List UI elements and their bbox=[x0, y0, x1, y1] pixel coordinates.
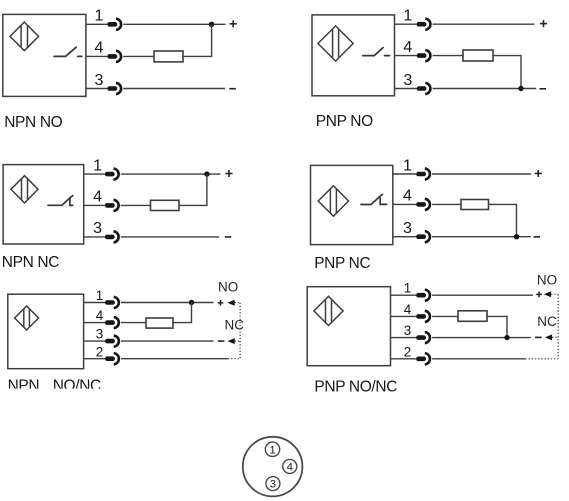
proximity sensor symbol (diamond) U6 bbox=[314, 296, 343, 325]
connector pin 3 bbox=[266, 477, 280, 491]
svg-text:PNP NC: PNP NC bbox=[314, 255, 370, 272]
wire pin3 to - bbox=[121, 340, 214, 342]
load resistor R3 bbox=[151, 200, 180, 210]
connector plug pin 1 bbox=[105, 297, 119, 308]
wire pin4 to load bbox=[432, 203, 461, 205]
sensor box U2 bbox=[312, 15, 395, 96]
junction node on pin1 bbox=[209, 22, 214, 27]
connector plug pin 2 bbox=[416, 353, 430, 364]
sensor box U5 bbox=[8, 294, 84, 369]
svg-text:NPN NC: NPN NC bbox=[2, 254, 59, 271]
- supply symbol bbox=[535, 336, 542, 338]
- supply symbol bbox=[218, 340, 225, 342]
NC switch contact S4 bbox=[361, 194, 387, 204]
wire pin3 stub bbox=[84, 236, 105, 238]
dotted select bus bbox=[557, 294, 559, 359]
connector plug pin 3 bbox=[105, 336, 119, 347]
+ supply symbol bbox=[535, 170, 542, 177]
connector plug pin 4 bbox=[417, 50, 431, 61]
svg-text:4: 4 bbox=[403, 39, 412, 56]
proximity sensor symbol (diamond) U5 bbox=[15, 306, 39, 330]
connector plug pin 3 bbox=[107, 83, 121, 94]
+ supply symbol bbox=[230, 20, 237, 27]
- supply symbol bbox=[540, 88, 547, 90]
proximity sensor symbol (diamond) U4 bbox=[318, 186, 348, 216]
wire pin4 to load bbox=[121, 204, 151, 206]
- supply symbol bbox=[534, 236, 541, 238]
svg-text:2: 2 bbox=[96, 344, 104, 359]
wire load to junction bbox=[179, 174, 207, 205]
wire pin1 to + bbox=[433, 23, 535, 25]
connector plug pin 4 bbox=[416, 199, 430, 210]
svg-text:4: 4 bbox=[287, 461, 293, 473]
+ supply symbol bbox=[540, 20, 547, 27]
wire pin1 stub bbox=[393, 173, 416, 175]
wire pin4 stub bbox=[395, 55, 417, 57]
- supply symbol bbox=[229, 88, 236, 90]
NO switch contact S1 bbox=[54, 47, 82, 56]
wire pin1 stub bbox=[84, 302, 105, 304]
wire pin1 to + bbox=[123, 23, 225, 25]
svg-text:1: 1 bbox=[96, 288, 104, 303]
svg-text:3: 3 bbox=[95, 72, 104, 89]
svg-text:NO: NO bbox=[218, 279, 238, 294]
svg-text:4: 4 bbox=[403, 188, 412, 205]
+ supply symbol bbox=[536, 292, 542, 298]
wire pin4 to load bbox=[121, 322, 146, 324]
svg-text:NO/NC: NO/NC bbox=[53, 378, 101, 395]
connector plug pin 3 bbox=[105, 231, 119, 242]
wire pin1 to + bbox=[121, 302, 214, 304]
wire pin4 stub bbox=[391, 315, 417, 317]
wire pin3 to - bbox=[123, 88, 225, 90]
connector pin 4 bbox=[283, 459, 297, 473]
svg-text:3: 3 bbox=[403, 220, 412, 237]
wire pin2 stub bbox=[84, 358, 105, 360]
connector plug pin 1 bbox=[416, 290, 430, 301]
wire pin1 to + bbox=[121, 173, 221, 175]
NO select arrow bbox=[228, 300, 241, 306]
connector plug pin 1 bbox=[416, 168, 430, 179]
connector plug pin 3 bbox=[416, 332, 430, 343]
wire pin3 to - bbox=[432, 337, 531, 339]
svg-text:PNP NO/NC: PNP NO/NC bbox=[314, 378, 397, 395]
svg-text:NC: NC bbox=[537, 314, 557, 329]
connector plug pin 3 bbox=[417, 83, 431, 94]
wire pin3 stub bbox=[86, 88, 107, 90]
junction node on pin3 bbox=[504, 335, 509, 340]
svg-text:PNP NO: PNP NO bbox=[316, 113, 373, 130]
sensor box U4 bbox=[311, 165, 393, 244]
junction node on pin1 bbox=[204, 171, 209, 176]
wire pin1 to + bbox=[432, 173, 531, 175]
wire pin4 stub bbox=[86, 55, 107, 57]
connector plug pin 3 bbox=[416, 231, 430, 242]
svg-text:NPN NO: NPN NO bbox=[4, 114, 62, 131]
wire pin4 to load bbox=[433, 55, 463, 57]
connector plug pin 1 bbox=[417, 19, 431, 30]
wire pin4 stub bbox=[84, 322, 105, 324]
svg-text:3: 3 bbox=[403, 72, 412, 89]
connector plug pin 2 bbox=[105, 353, 119, 364]
+ supply symbol bbox=[226, 170, 233, 177]
svg-text:3: 3 bbox=[404, 323, 412, 338]
svg-text:3: 3 bbox=[270, 479, 276, 491]
wire pin3 stub bbox=[84, 340, 105, 342]
svg-text:1: 1 bbox=[403, 8, 412, 25]
junction node on pin3 bbox=[518, 86, 523, 91]
sensor box U1 bbox=[3, 14, 86, 96]
proximity sensor symbol (diamond) U2 bbox=[318, 26, 353, 61]
svg-text:NC: NC bbox=[225, 317, 245, 332]
connector plug pin 4 bbox=[107, 51, 121, 62]
load resistor R2 bbox=[463, 50, 493, 61]
NC select arrow bbox=[545, 334, 558, 340]
load resistor R6 bbox=[458, 311, 487, 322]
connector body circle bbox=[243, 437, 303, 497]
svg-text:1: 1 bbox=[403, 157, 412, 174]
sensor box U3 bbox=[3, 165, 84, 244]
connector plug pin 4 bbox=[416, 311, 430, 322]
wire load to junction bbox=[489, 204, 517, 236]
label NPN NO/NC (clipped at bottom) bbox=[8, 378, 101, 395]
sensor box U6 bbox=[307, 287, 390, 366]
svg-text:4: 4 bbox=[404, 302, 412, 317]
NO select arrow bbox=[544, 291, 558, 297]
wire pin4 to load bbox=[432, 315, 458, 317]
wire pin2 dotted tail bbox=[228, 358, 240, 360]
wire load to junction bbox=[183, 24, 212, 56]
wire pin1 stub bbox=[391, 294, 417, 296]
proximity sensor symbol (diamond) U3 bbox=[11, 176, 38, 203]
wire load to junction bbox=[173, 303, 192, 323]
wire pin2 solid bbox=[432, 358, 525, 360]
svg-text:4: 4 bbox=[96, 308, 104, 323]
load resistor R5 bbox=[146, 318, 173, 328]
svg-text:NPN: NPN bbox=[8, 378, 40, 395]
wire pin4 stub bbox=[84, 204, 105, 206]
dotted select bus bbox=[239, 303, 241, 359]
svg-text:1: 1 bbox=[404, 281, 412, 296]
load resistor R4 bbox=[461, 200, 489, 210]
svg-text:4: 4 bbox=[95, 40, 104, 57]
svg-text:NO: NO bbox=[537, 273, 557, 288]
wire pin2 solid bbox=[121, 358, 228, 360]
- supply symbol bbox=[225, 236, 232, 238]
svg-text:3: 3 bbox=[96, 327, 104, 342]
wire pin3 stub bbox=[393, 236, 416, 238]
connector plug pin 4 bbox=[105, 200, 119, 211]
NO switch contact S2 bbox=[363, 48, 390, 56]
junction node on pin3 bbox=[514, 234, 519, 239]
wire pin3 stub bbox=[395, 88, 417, 90]
connector plug pin 4 bbox=[105, 317, 119, 328]
load resistor R1 bbox=[154, 51, 183, 62]
svg-text:2: 2 bbox=[404, 344, 412, 359]
wire pin4 stub bbox=[393, 203, 416, 205]
wire load to junction bbox=[493, 56, 521, 89]
wire pin3 to - bbox=[121, 236, 219, 238]
wire pin3 to - bbox=[432, 236, 531, 238]
wire pin4 to load bbox=[123, 55, 154, 57]
connector plug pin 1 bbox=[105, 169, 119, 180]
svg-text:1: 1 bbox=[269, 444, 275, 456]
+ supply symbol bbox=[218, 300, 224, 306]
wire pin2 stub bbox=[391, 358, 417, 360]
svg-text:4: 4 bbox=[93, 188, 102, 205]
wire pin1 stub bbox=[84, 173, 105, 175]
NC switch contact S3 bbox=[48, 196, 73, 206]
wire pin3 to - bbox=[433, 88, 537, 90]
connector plug pin 1 bbox=[107, 19, 121, 30]
wire pin3 stub bbox=[391, 337, 417, 339]
proximity sensor symbol (diamond) U1 bbox=[10, 22, 39, 51]
svg-text:1: 1 bbox=[93, 157, 102, 174]
wire pin1 stub bbox=[86, 23, 107, 25]
svg-text:3: 3 bbox=[93, 220, 102, 237]
wire load to junction bbox=[487, 316, 507, 337]
wire pin1 to + bbox=[432, 294, 533, 296]
connector pin 1 bbox=[265, 442, 279, 456]
wire pin1 stub bbox=[395, 23, 417, 25]
junction node on pin1 bbox=[189, 300, 194, 305]
NC select arrow bbox=[228, 338, 241, 344]
svg-text:1: 1 bbox=[95, 8, 104, 25]
wire pin2 dotted tail bbox=[525, 358, 558, 360]
